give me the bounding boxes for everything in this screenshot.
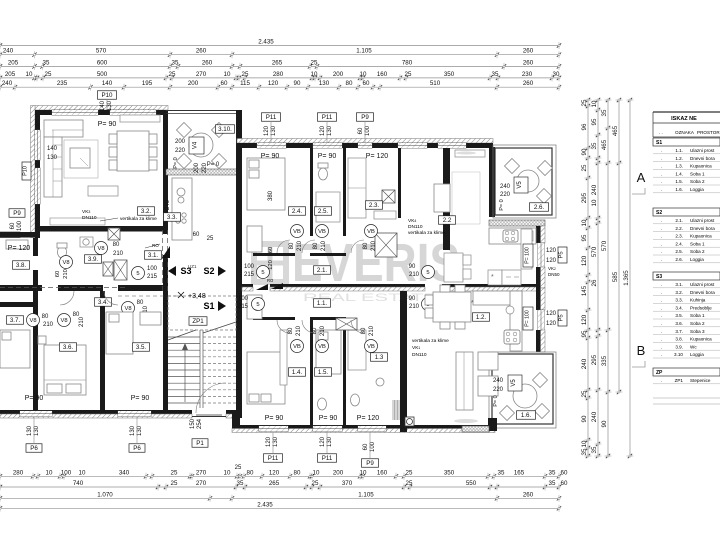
svg-text:215: 215: [238, 304, 249, 310]
svg-text:1.6.: 1.6.: [675, 187, 683, 192]
wall x33 bath 3.8: [33, 238, 38, 256]
svg-text:130: 130: [327, 436, 333, 447]
svg-text:130: 130: [27, 425, 33, 436]
svg-text:80: 80: [113, 242, 120, 248]
bed 1.4: [247, 352, 285, 404]
loggia 2.6 table: [517, 170, 539, 192]
svg-text:90: 90: [294, 80, 301, 87]
svg-text:*: *: [471, 300, 474, 307]
svg-text:RO: RO: [152, 243, 159, 248]
room label 1.5: [315, 368, 332, 377]
svg-text:1.4.: 1.4.: [675, 171, 683, 176]
svg-text:2.1.: 2.1.: [317, 267, 328, 274]
svg-text:380: 380: [268, 190, 274, 201]
shaft crossed lower: [336, 318, 357, 330]
wall loggia310 left: [163, 110, 168, 176]
svg-text:25: 25: [242, 71, 249, 78]
wall stair left: [163, 255, 168, 418]
door arc room 1.5: [302, 320, 315, 333]
loggia 1.6 table: [513, 384, 537, 408]
svg-text:240: 240: [2, 80, 13, 87]
room label 2.4: [289, 207, 306, 216]
sideboard 2.2 top: [455, 150, 485, 157]
svg-text:210: 210: [296, 325, 302, 336]
shower 2.5: [316, 192, 340, 222]
loggia 1.6 border: [492, 354, 553, 424]
wardrobe 1.4: [247, 295, 262, 319]
svg-text:V8: V8: [97, 246, 104, 252]
room label 1.1: [314, 299, 331, 308]
wall unit separator x443: [443, 148, 450, 250]
room label 3.1: [145, 251, 162, 260]
svg-text:V5: V5: [511, 379, 517, 387]
svg-text:35: 35: [591, 142, 598, 149]
room label 2.2: [439, 216, 456, 225]
svg-text:.: .: [661, 234, 662, 239]
room label 3.6: [60, 343, 77, 352]
svg-text:P= 90: P= 90: [131, 395, 150, 402]
svg-text:1.070: 1.070: [97, 491, 113, 498]
wall above bedrooms 1.4 1.5: [253, 317, 295, 320]
svg-text:570: 570: [601, 240, 608, 251]
svg-text:P5: P5: [559, 314, 565, 321]
svg-text:25: 25: [235, 465, 242, 471]
svg-text:Loggia: Loggia: [690, 257, 704, 262]
svg-text:10: 10: [224, 71, 231, 78]
loggia 3.10 top thin: [166, 110, 240, 112]
svg-text:vertikala za klime: vertikala za klime: [408, 230, 445, 236]
svg-text:.: .: [661, 187, 662, 192]
svg-text:2.5.: 2.5.: [318, 208, 329, 215]
svg-text:DN50: DN50: [548, 272, 560, 277]
svg-text:3.6.: 3.6.: [63, 344, 74, 351]
tag P11 bottom1: [264, 454, 283, 463]
svg-text:60: 60: [55, 271, 61, 277]
svg-text:P= 90: P= 90: [318, 153, 337, 160]
svg-text:370: 370: [342, 480, 353, 487]
washer crossed 3.4: [103, 262, 113, 276]
svg-text:160: 160: [377, 71, 388, 78]
vb circle 3.6: [58, 314, 71, 327]
svg-text:V8: V8: [29, 318, 36, 324]
svg-text:2.4.: 2.4.: [675, 241, 683, 246]
svg-text:25: 25: [581, 99, 588, 106]
table trailing lines: [653, 397, 720, 399]
svg-text:10: 10: [46, 469, 53, 476]
svg-text:10: 10: [581, 219, 588, 226]
room label 1.4: [289, 368, 306, 377]
wall 2.4/2.5: [310, 148, 313, 236]
svg-text:210: 210: [409, 272, 420, 278]
svg-text:S3: S3: [656, 274, 662, 280]
svg-text:215: 215: [147, 274, 158, 280]
bed 1.5: [316, 330, 341, 374]
svg-text:V8: V8: [62, 260, 69, 266]
svg-text:VB: VB: [367, 229, 375, 235]
svg-text:Soba 2: Soba 2: [690, 249, 705, 254]
top dimension chain row5: [0, 86, 559, 88]
right dimension chain col4: [618, 100, 620, 392]
svg-text:120: 120: [320, 436, 326, 447]
svg-text:210: 210: [369, 325, 375, 336]
wall between 3.6 and 3.5: [100, 291, 105, 411]
svg-text:25: 25: [581, 164, 588, 171]
tag P11 bottom2: [318, 454, 337, 463]
svg-text:550: 550: [466, 480, 477, 487]
dresser 3.8: [6, 240, 28, 249]
svg-text:P= 90: P= 90: [98, 121, 117, 128]
top dimension chain row2: [0, 54, 559, 56]
stair break line: [168, 322, 236, 340]
svg-text:.: .: [661, 378, 662, 383]
svg-text:DN110: DN110: [412, 352, 427, 358]
svg-text:ZP1: ZP1: [192, 318, 204, 325]
svg-text:10: 10: [591, 100, 598, 107]
svg-text:80: 80: [289, 242, 295, 249]
svg-text:A: A: [637, 170, 646, 185]
svg-text:10: 10: [313, 469, 320, 476]
svg-text:Soba 1: Soba 1: [690, 241, 705, 246]
svg-text:270: 270: [196, 71, 207, 78]
table section ZP: [653, 368, 720, 376]
svg-text:P10: P10: [101, 92, 113, 99]
svg-text:100: 100: [147, 266, 158, 272]
svg-text:60: 60: [193, 232, 200, 238]
svg-text:5: 5: [261, 270, 264, 276]
svg-text:3.2.: 3.2.: [141, 208, 152, 215]
svg-text:260: 260: [523, 48, 534, 55]
stair entry door arc: [196, 383, 226, 413]
svg-text:210: 210: [113, 251, 124, 257]
kitchen sink 3.3: [177, 188, 185, 196]
wall vertical x33 lower-left: [33, 291, 38, 411]
wall loggia 2.6 left: [489, 147, 495, 217]
door arc room 2.5: [302, 240, 315, 253]
svg-text:340: 340: [119, 469, 130, 476]
svg-text:35: 35: [601, 109, 608, 116]
svg-text:90: 90: [409, 264, 416, 270]
svg-text:P11: P11: [322, 114, 333, 121]
svg-text:.: .: [661, 298, 662, 303]
loggia 1.6 V5 box: [508, 375, 522, 391]
svg-text:120: 120: [269, 469, 280, 476]
table section S2: [653, 208, 720, 216]
top dimension chain row4: [0, 77, 559, 79]
wall 1.4/1.5: [310, 320, 313, 425]
svg-text:95: 95: [581, 234, 588, 241]
svg-text:465: 465: [612, 125, 619, 136]
svg-text:205: 205: [8, 59, 19, 66]
svg-text:DN110: DN110: [82, 215, 97, 221]
rug living 3.2: [64, 140, 98, 178]
svg-text:210: 210: [63, 269, 69, 279]
entry door P1 in bottom wall: [192, 416, 226, 418]
svg-text:2.1.: 2.1.: [675, 218, 683, 223]
top dimension chain total 2.435: [0, 45, 559, 47]
svg-text:25: 25: [171, 480, 178, 487]
svg-text:3.5.: 3.5.: [136, 344, 147, 351]
bottom dimension chain row4: [0, 507, 559, 509]
table section S1: [653, 138, 720, 146]
svg-text:1.2.: 1.2.: [476, 314, 487, 321]
svg-text:3.2.: 3.2.: [675, 290, 683, 295]
couch 1.2: [456, 352, 473, 410]
svg-text:60: 60: [268, 247, 274, 253]
kitchen stove lower: [504, 330, 520, 344]
svg-text:80: 80: [363, 242, 369, 249]
svg-text:P= 90: P= 90: [265, 415, 284, 422]
loggia 2.6 V5 box: [514, 177, 528, 193]
svg-text:5: 5: [426, 270, 429, 276]
svg-text:P= 100: P= 100: [525, 310, 531, 327]
svg-text:350: 350: [444, 469, 455, 476]
loggia 3.10 table: [189, 133, 213, 157]
svg-text:Soba 2: Soba 2: [690, 321, 705, 326]
svg-text:VK2: VK2: [548, 266, 556, 271]
svg-text:.: .: [661, 171, 662, 176]
wall kitchen left x163: [163, 176, 168, 234]
svg-text:.: .: [661, 226, 662, 231]
level leader dashed: [118, 295, 178, 297]
svg-text:RO: RO: [267, 278, 274, 283]
svg-text:240: 240: [500, 184, 511, 190]
tag P11 top2: [318, 113, 337, 122]
svg-text:95: 95: [581, 330, 588, 337]
svg-text:1.1.: 1.1.: [675, 148, 683, 153]
svg-text:25: 25: [207, 236, 214, 242]
svg-text:100: 100: [238, 296, 249, 302]
svg-text:B: B: [637, 343, 646, 358]
svg-text:130: 130: [271, 125, 277, 136]
svg-text:.: .: [661, 305, 662, 310]
svg-text:160: 160: [377, 469, 388, 476]
svg-text:.: .: [661, 344, 662, 349]
svg-text:3.4.: 3.4.: [98, 299, 109, 306]
svg-text:2.3.: 2.3.: [369, 202, 380, 209]
right dimension chain col1: [587, 100, 589, 456]
svg-text:Dnevni bora: Dnevni bora: [690, 226, 715, 231]
tag P9 top: [357, 113, 374, 122]
svg-text:280: 280: [13, 469, 24, 476]
svg-text:VB: VB: [293, 344, 301, 350]
svg-text:.: .: [661, 290, 662, 295]
svg-text:200: 200: [333, 469, 344, 476]
svg-text:ISKAZ NE: ISKAZ NE: [671, 116, 697, 122]
svg-text:35: 35: [591, 446, 598, 453]
svg-text:140: 140: [100, 100, 106, 111]
svg-text:270: 270: [196, 469, 207, 476]
svg-text:*: *: [491, 274, 494, 281]
svg-text:UZ1: UZ1: [188, 264, 197, 269]
svg-text:Stepenice: Stepenice: [690, 378, 711, 383]
wall loggia 1.6 corner: [488, 418, 497, 431]
svg-text:2.6.: 2.6.: [675, 257, 683, 262]
svg-text:120: 120: [268, 80, 279, 87]
bath 2.3 fixtures: [348, 158, 366, 218]
svg-text:35: 35: [43, 59, 50, 66]
svg-text:.: .: [661, 156, 662, 161]
svg-text:210: 210: [371, 240, 377, 251]
svg-text:2.2.: 2.2.: [675, 226, 683, 231]
svg-text:P= 120: P= 120: [357, 415, 379, 422]
svg-text:96: 96: [581, 123, 588, 130]
svg-text:2.6.: 2.6.: [534, 204, 545, 211]
svg-text:1.105: 1.105: [356, 48, 372, 55]
bed 3.6: [44, 345, 86, 395]
svg-text:235: 235: [57, 80, 68, 87]
svg-text:200: 200: [194, 162, 200, 173]
kitchen counter vertical upper: [521, 229, 532, 269]
svg-text:P1: P1: [196, 440, 204, 447]
svg-text:vertikala za klime: vertikala za klime: [412, 338, 449, 344]
svg-text:740: 740: [73, 480, 84, 487]
room label 3.8: [13, 261, 30, 270]
tag P9 left: [9, 209, 25, 218]
svg-text:P= 120: P= 120: [8, 245, 30, 252]
svg-text:25: 25: [171, 469, 178, 476]
svg-text:35: 35: [172, 59, 179, 66]
svg-text:2.435: 2.435: [258, 39, 274, 46]
svg-text:120: 120: [320, 125, 326, 136]
svg-text:120: 120: [546, 311, 557, 317]
svg-text:.: .: [661, 329, 662, 334]
svg-text:.: .: [661, 218, 662, 223]
svg-text:1.2.: 1.2.: [675, 156, 683, 161]
kitchen 3.3 counter: [172, 178, 192, 240]
svg-text:1.3: 1.3: [375, 354, 384, 361]
room label 3.2: [138, 207, 155, 216]
svg-text:3.3.: 3.3.: [167, 214, 178, 221]
svg-text:3.1.: 3.1.: [675, 282, 683, 287]
svg-text:465: 465: [601, 139, 608, 150]
svg-text:3.10.: 3.10.: [218, 126, 232, 133]
bath 1.3 toilet: [351, 394, 360, 406]
svg-text:295: 295: [581, 192, 588, 203]
svg-text:120: 120: [266, 436, 272, 447]
tv bench 1.2: [454, 419, 478, 423]
floor drain square: [405, 417, 414, 426]
svg-text:26: 26: [591, 279, 598, 286]
tag P1 bottom: [192, 439, 208, 448]
svg-text:1.6.: 1.6.: [521, 412, 532, 419]
svg-text:5: 5: [256, 302, 259, 308]
svg-text:280: 280: [273, 71, 284, 78]
svg-text:.: .: [661, 313, 662, 318]
wall center bottom outer: [232, 425, 495, 429]
svg-text:10: 10: [224, 469, 231, 476]
sideboard 3.2: [120, 115, 160, 122]
right dimension chain col2: [597, 100, 599, 456]
radiator 1.2: [393, 400, 399, 420]
svg-text:3.9.: 3.9.: [88, 256, 99, 263]
svg-text:3.7.: 3.7.: [675, 329, 683, 334]
svg-text:240: 240: [493, 378, 504, 384]
svg-text:25: 25: [169, 71, 176, 78]
svg-text:60: 60: [363, 443, 369, 450]
svg-text:VB: VB: [367, 344, 375, 350]
svg-text:510: 510: [430, 80, 441, 87]
section trace dashed lines: [162, 230, 164, 292]
svg-text:210: 210: [43, 322, 54, 328]
bath 1.3 sink: [376, 378, 384, 386]
svg-text:10: 10: [360, 469, 367, 476]
svg-text:35: 35: [581, 448, 588, 455]
wall center-top outer: [237, 139, 493, 144]
vb circle 3.9: [60, 256, 73, 269]
watermark logo: [254, 244, 286, 282]
svg-text:60: 60: [363, 80, 370, 87]
svg-text:100: 100: [370, 441, 376, 452]
svg-text:240: 240: [591, 184, 598, 195]
svg-text:25: 25: [581, 390, 588, 397]
svg-text:Ulazni prost: Ulazni prost: [690, 148, 715, 153]
loggia 3.10 sill: [166, 169, 240, 175]
svg-text:Soba 2: Soba 2: [690, 179, 705, 184]
tag P10 left: [22, 162, 31, 180]
stair door triangle: [162, 246, 170, 258]
wall left-block living bottom: [35, 226, 166, 232]
svg-text:90: 90: [581, 415, 588, 422]
svg-text:260: 260: [202, 59, 213, 66]
tag P11 top1: [262, 113, 281, 122]
tag P6 bottom2: [129, 444, 145, 453]
svg-text:60: 60: [561, 480, 568, 487]
svg-text:210: 210: [409, 304, 420, 310]
svg-text:S1: S1: [656, 140, 662, 146]
svg-text:260: 260: [523, 491, 534, 498]
svg-text:130: 130: [130, 425, 136, 436]
svg-text:30: 30: [553, 71, 560, 78]
svg-text:Kupaonica: Kupaonica: [690, 234, 712, 239]
wall left outer: [31, 106, 36, 238]
kitchen base cabinets 2.2: [488, 270, 502, 285]
bottom dimension chain row3: [0, 497, 559, 499]
svg-text:P= 0: P= 0: [493, 395, 499, 406]
vb circle 3.5 door: [122, 302, 135, 315]
svg-text:100: 100: [244, 264, 255, 270]
svg-text:2.2: 2.2: [443, 217, 452, 224]
svg-text:P11: P11: [266, 114, 277, 121]
svg-text:.: .: [661, 337, 662, 342]
svg-text:210: 210: [297, 240, 303, 251]
wall between 3.8/3.7 rooms: [0, 302, 38, 307]
svg-text:Ulazni prost: Ulazni prost: [690, 282, 715, 287]
shaft crossed upper: [375, 233, 397, 257]
svg-text:80: 80: [294, 469, 301, 476]
svg-text:.: .: [661, 352, 662, 357]
svg-text:60: 60: [221, 80, 228, 87]
wall stair-bottom connector: [232, 410, 240, 432]
svg-text:3.8.: 3.8.: [16, 262, 27, 269]
svg-text:Dnevni bora: Dnevni bora: [690, 290, 715, 295]
wall 1.5/1.3: [343, 320, 346, 425]
svg-text:Loggia: Loggia: [690, 187, 704, 192]
kitchen dashed cabinets upper: [489, 225, 536, 227]
svg-text:260: 260: [523, 80, 534, 87]
svg-text:585: 585: [612, 271, 619, 282]
svg-text:254: 254: [197, 418, 203, 429]
svg-text:V4: V4: [193, 141, 199, 149]
kitchen sink lower: [506, 306, 514, 314]
room label 2.6: [530, 203, 549, 212]
svg-text:VB: VB: [318, 344, 326, 350]
svg-text:P= 90: P= 90: [319, 415, 338, 422]
vb circle 3.7: [27, 314, 40, 327]
tv bench 3.2: [88, 186, 118, 196]
svg-text:.: .: [661, 241, 662, 246]
tag P9 bottom: [362, 459, 379, 468]
svg-text:2.5.: 2.5.: [675, 249, 683, 254]
